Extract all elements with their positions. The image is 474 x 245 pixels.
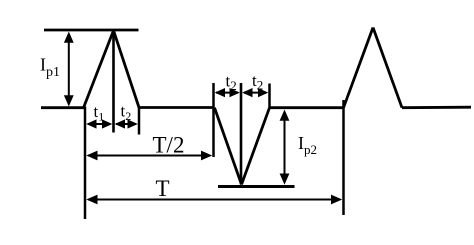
dimension tick at pulse-2 start (receives T/2 arrow) [212, 83, 215, 157]
dimension arrow t2 first half of pulse 2 [215, 88, 240, 97]
svg-text:T/2: T/2 [153, 133, 185, 158]
dimension arrow t2 (pulse 1, double-headed horizontal) [115, 119, 138, 128]
dimension arrow T (double-headed horizontal) [86, 195, 342, 205]
dimension arrow t1 (double-headed horizontal) [86, 119, 112, 128]
pulse 2 peak level line (Ip2 level) [218, 185, 295, 188]
pulse 1 falling edge [114, 31, 140, 108]
pulse 3 rising edge [344, 28, 374, 108]
svg-text:t1: t1 [94, 102, 105, 124]
svg-text:T: T [156, 176, 170, 201]
pulse 1 center vertical [112, 31, 115, 133]
baseline segment between pulse 1 and pulse 2 [139, 106, 214, 109]
top reference line (Ip1 peak level) [44, 29, 139, 32]
svg-text:Ip1: Ip1 [40, 55, 60, 81]
dimension tick at pulse-2 end [268, 84, 271, 109]
baseline segment right of pulse 3 [402, 106, 471, 109]
dimension arrow t2 second half of pulse 2 [242, 88, 268, 97]
dimension tick at pulse-1 end [138, 107, 141, 135]
dimension arrow T/2 (double-headed horizontal) [86, 151, 212, 161]
dimension tick at pulse-1 start (long vertical for T/2 and T) [84, 107, 87, 220]
pulse 2 falling edge [215, 108, 242, 185]
baseline segment left of pulse 1 [41, 106, 85, 109]
svg-text:Ip2: Ip2 [298, 133, 317, 157]
dimension arrow Ip2 (double-headed vertical) [280, 110, 290, 185]
pulse 2 rising edge [242, 108, 270, 185]
dimension arrow Ip1 (double-headed vertical) [64, 32, 74, 107]
dimension tick at pulse-3 start (receives T arrow) [342, 100, 345, 215]
svg-text:t2: t2 [252, 71, 263, 93]
baseline segment between pulse 2 and pulse 3 [270, 106, 344, 109]
pulse 1 rising edge [84, 31, 114, 108]
pulse 3 falling edge [373, 28, 402, 108]
pulse 2 center vertical [240, 83, 243, 185]
svg-text:t2: t2 [121, 102, 132, 124]
svg-text:t2: t2 [226, 72, 237, 94]
